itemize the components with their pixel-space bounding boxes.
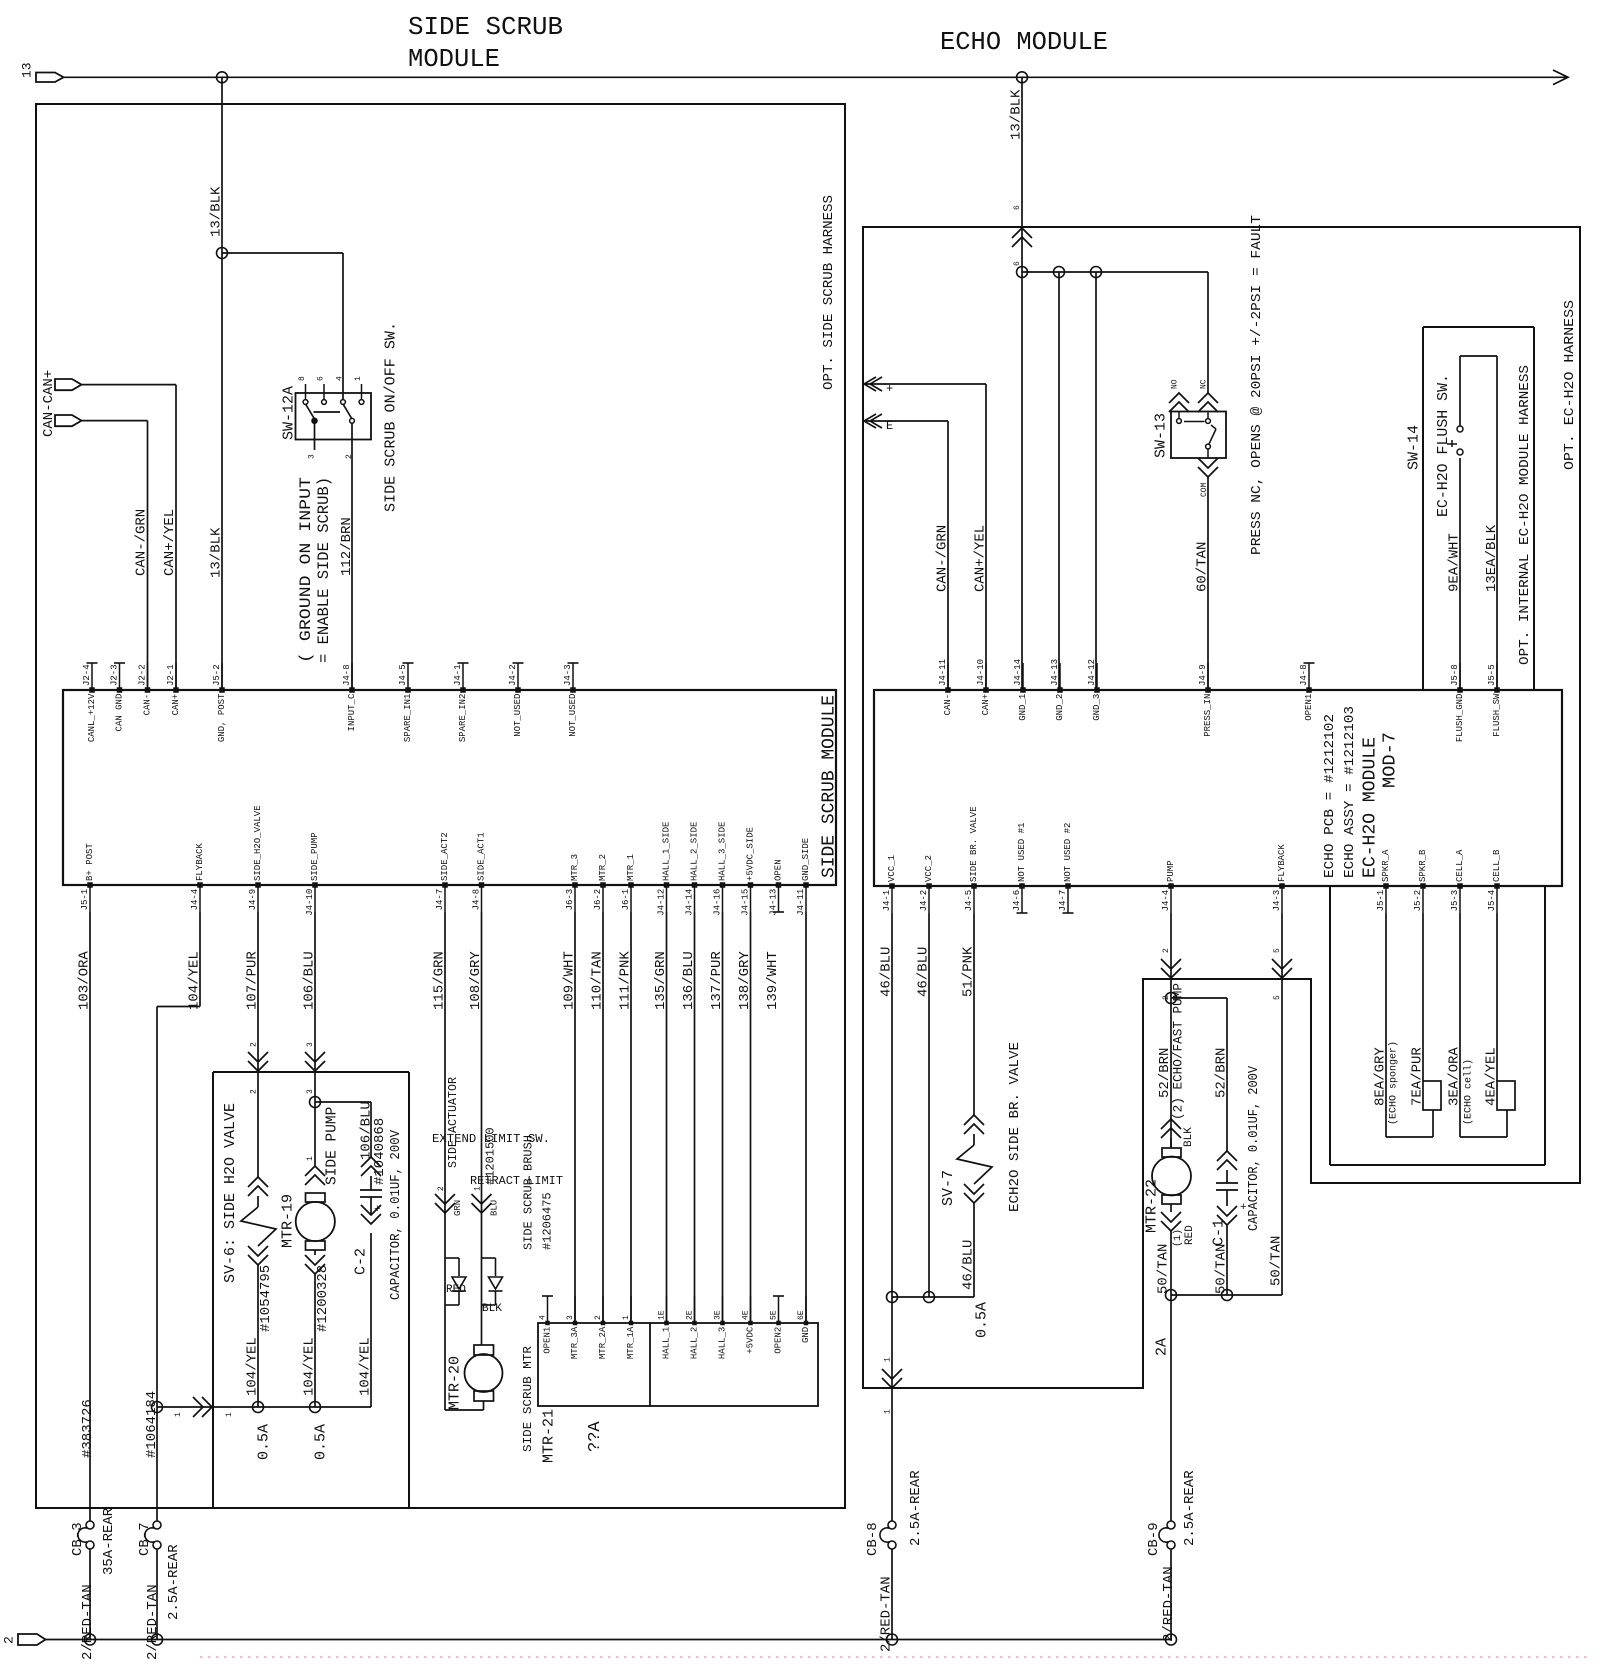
svg-text:SIDE SCRUB ON/OFF SW.: SIDE SCRUB ON/OFF SW. bbox=[382, 322, 399, 512]
junction C-1 tap bbox=[1166, 993, 1177, 1004]
svg-text:3: 3 bbox=[306, 1042, 315, 1047]
svg-text:J4-2: J4-2 bbox=[919, 890, 929, 912]
svg-text:SIDE_ACT1: SIDE_ACT1 bbox=[477, 832, 487, 881]
label #1040868 bbox=[372, 1118, 388, 1185]
label 60/TAN bbox=[1195, 542, 1211, 592]
wire branch to SW-12A bbox=[222, 253, 343, 400]
svg-text:2.5A-REAR: 2.5A-REAR bbox=[908, 1470, 924, 1546]
pin J4-16 HALL_3_SIDE bbox=[713, 822, 728, 916]
svg-text:139/WHT: 139/WHT bbox=[765, 951, 781, 1010]
wire GND_2 bbox=[1058, 272, 1060, 690]
junction pump bus bbox=[1166, 1290, 1177, 1301]
svg-text:J4-9: J4-9 bbox=[1198, 664, 1208, 686]
svg-text:+: + bbox=[374, 1204, 381, 1216]
svg-text:HALL_2: HALL_2 bbox=[690, 1327, 700, 1359]
svg-text:J4-5: J4-5 bbox=[964, 890, 974, 912]
svg-text:J2-1: J2-1 bbox=[166, 664, 176, 686]
junction 104/YEL bus bbox=[152, 1402, 163, 1413]
svg-text:J5-3: J5-3 bbox=[1450, 890, 1460, 912]
label 50/TAN mtr22 bbox=[1156, 1244, 1172, 1294]
pin J6-1 MTR_1 bbox=[621, 854, 636, 912]
label ECHO/FAST PUMP bbox=[1171, 983, 1186, 1120]
svg-text:CAN+/YEL: CAN+/YEL bbox=[973, 525, 989, 592]
svg-text:J4-14: J4-14 bbox=[1013, 659, 1023, 686]
svg-text:104/YEL: 104/YEL bbox=[302, 1337, 318, 1396]
wire 13/BLK right bbox=[1021, 77, 1023, 272]
svg-text:GND: GND bbox=[801, 1327, 811, 1343]
svg-text:GND_2: GND_2 bbox=[1055, 694, 1065, 721]
switch SW-12A box bbox=[296, 393, 372, 440]
svg-text:SIDE SCRUB: SIDE SCRUB bbox=[408, 12, 563, 42]
label 104/YEL c2 bbox=[358, 1337, 374, 1396]
wire CB-8 to bus bbox=[891, 1549, 893, 1640]
label 106/BLU bbox=[302, 951, 318, 1010]
svg-text:J5-1: J5-1 bbox=[1376, 890, 1386, 912]
switch SW-13 box bbox=[1171, 412, 1226, 459]
svg-text:6: 6 bbox=[316, 376, 325, 381]
pin J4-1 SPARE_IN2 bbox=[453, 663, 468, 742]
label 103/ORA bbox=[77, 951, 93, 1010]
svg-text:J4-10: J4-10 bbox=[305, 889, 315, 916]
svg-text:ECH2O SIDE BR. VALVE: ECH2O SIDE BR. VALVE bbox=[1007, 1042, 1023, 1212]
svg-text:CAN-: CAN- bbox=[143, 694, 153, 716]
svg-text:SPKR_B: SPKR_B bbox=[1418, 849, 1428, 882]
pin J4-10 SIDE_PUMP bbox=[305, 832, 320, 915]
label NO bbox=[1170, 379, 1179, 389]
svg-text:50/TAN: 50/TAN bbox=[1156, 1244, 1172, 1294]
pin J5-1 B+ POST bbox=[80, 843, 95, 912]
label pin2 sv6 above bbox=[249, 1042, 258, 1047]
label 0.5A sv6 bbox=[255, 1424, 272, 1460]
wire 60/TAN bbox=[1207, 477, 1209, 690]
label #1201500 bbox=[483, 1127, 497, 1185]
label 2 pump below bbox=[1162, 995, 1171, 1000]
wire 13/BLK left bbox=[221, 77, 223, 690]
pin 1E HALL_1 MTR-21 bbox=[657, 1296, 671, 1359]
svg-text:5: 5 bbox=[1273, 948, 1282, 953]
svg-text:SV-6: SIDE H2O VALVE: SV-6: SIDE H2O VALVE bbox=[222, 1103, 239, 1283]
wire 107/PUR bbox=[257, 912, 259, 1177]
pin J4-4 FLYBACK bbox=[190, 843, 205, 912]
svg-text:SW-12A: SW-12A bbox=[280, 386, 297, 440]
label #1064184 bbox=[144, 1391, 160, 1458]
pin 1 label bbox=[354, 376, 363, 381]
title MODULE bbox=[408, 44, 500, 74]
circuit breaker CB-8 bbox=[880, 1521, 896, 1549]
label 13EA/BLK bbox=[1484, 524, 1500, 592]
wire CB-7 to bus bbox=[156, 1549, 158, 1640]
label 115/GRN bbox=[432, 951, 448, 1010]
wire GND_1 bbox=[1021, 272, 1023, 690]
pin J5-2 SPKR_B bbox=[1413, 849, 1428, 913]
svg-text:#1206475: #1206475 bbox=[540, 1192, 554, 1250]
svg-text:MTR_3A: MTR_3A bbox=[570, 1326, 580, 1359]
label 2/RED-TAN bbox=[1161, 1566, 1177, 1642]
svg-text:2: 2 bbox=[2, 1636, 17, 1644]
wire vcc header bbox=[892, 1296, 974, 1298]
svg-text:8EA/GRY: 8EA/GRY bbox=[1373, 1047, 1389, 1106]
svg-text:CANL_+12V: CANL_+12V bbox=[87, 693, 97, 742]
svg-text:INPUT_C: INPUT_C bbox=[347, 693, 357, 731]
svg-text:CAN+: CAN+ bbox=[171, 694, 181, 716]
wire 52/BRN pump bbox=[1170, 913, 1172, 1148]
label 136/BLU bbox=[681, 951, 697, 1010]
svg-text:J5-2: J5-2 bbox=[212, 664, 222, 686]
junction CB-9 bus bbox=[1166, 1634, 1177, 1645]
label CAN+/YEL right bbox=[973, 525, 989, 592]
pin J4-12 GND_3 bbox=[1087, 659, 1102, 721]
svg-text:13/BLK: 13/BLK bbox=[209, 186, 225, 237]
label CB-3 bbox=[70, 1522, 86, 1556]
label C-1 plus bbox=[1240, 1202, 1247, 1214]
wire 103/ORA bbox=[89, 912, 91, 1521]
label 108/GRY bbox=[468, 951, 484, 1010]
label RED bbox=[446, 1284, 466, 1296]
svg-text:J4-12: J4-12 bbox=[1087, 659, 1097, 686]
svg-text:MTR-22: MTR-22 bbox=[1143, 1179, 1160, 1233]
wire 112/BRN bbox=[351, 423, 353, 690]
label 8EA/GRY bbox=[1373, 1047, 1389, 1106]
label GRN bbox=[453, 1200, 463, 1216]
svg-text:SIDE_H2O_VALVE: SIDE_H2O_VALVE bbox=[253, 805, 263, 881]
junction C-2 tap bbox=[310, 1097, 321, 1108]
svg-text:HALL_1: HALL_1 bbox=[662, 1327, 672, 1359]
module EC-H2O MODULE box bbox=[874, 690, 1562, 886]
pin J4-8 OPEN1 bbox=[1299, 663, 1314, 721]
wire GND_3 bbox=[1095, 272, 1097, 690]
svg-text:13EA/BLK: 13EA/BLK bbox=[1484, 524, 1500, 592]
pin J5-4 CELL_B bbox=[1487, 849, 1502, 913]
label #1206475 bbox=[540, 1192, 554, 1250]
pin 6 label bbox=[316, 376, 325, 381]
circuit breaker CB-9 bbox=[1159, 1521, 1175, 1549]
svg-text:2/RED-TAN: 2/RED-TAN bbox=[1161, 1566, 1177, 1642]
wire CB-3 to bus bbox=[89, 1549, 91, 1640]
label 110/TAN bbox=[590, 951, 606, 1010]
svg-text:MTR_3: MTR_3 bbox=[570, 854, 580, 881]
svg-text:2/RED-TAN: 2/RED-TAN bbox=[80, 1584, 96, 1660]
svg-text:SPARE_IN2: SPARE_IN2 bbox=[458, 694, 468, 743]
label MTR-20 bbox=[446, 1356, 463, 1410]
svg-text:PRESS NC, OPENS @ 20PSI +/-2PS: PRESS NC, OPENS @ 20PSI +/-2PSI = FAULT bbox=[1249, 215, 1265, 555]
wire to MTR-21 x575 bbox=[574, 912, 576, 1323]
svg-text:HALL_2_SIDE: HALL_2_SIDE bbox=[690, 822, 700, 881]
svg-text:3: 3 bbox=[306, 1089, 315, 1094]
label pin1 act bbox=[473, 1186, 482, 1191]
label (1) bbox=[1172, 1229, 1184, 1247]
svg-text:CB-7: CB-7 bbox=[137, 1522, 153, 1556]
svg-text:OPT. EC-H2O HARNESS: OPT. EC-H2O HARNESS bbox=[1562, 300, 1578, 470]
switch SW-13 contacts bbox=[1177, 412, 1216, 459]
label pin3 mtr19 below bbox=[306, 1089, 315, 1094]
svg-text:VCC_1: VCC_1 bbox=[887, 855, 897, 882]
pin J4-9 PRESS_IN bbox=[1198, 663, 1213, 737]
svg-text:MTR_2A: MTR_2A bbox=[598, 1326, 608, 1359]
label 46/BLU vcc1 bbox=[879, 947, 895, 997]
wire 46/BLU vcc2 bbox=[928, 913, 930, 1297]
label 104/YEL bbox=[187, 951, 203, 1010]
switch SW-12A terminals bbox=[303, 384, 364, 404]
label C-2 plus bbox=[374, 1204, 381, 1216]
svg-text:J2-3: J2-3 bbox=[110, 664, 120, 686]
svg-text:0.5A: 0.5A bbox=[973, 1302, 990, 1338]
svg-text:1: 1 bbox=[225, 1412, 234, 1417]
switch SW-12A link bbox=[314, 411, 341, 413]
label pin3 mtr19 above bbox=[306, 1042, 315, 1047]
svg-text:J4-12: J4-12 bbox=[657, 889, 667, 916]
note enable side scrub bbox=[315, 477, 333, 663]
svg-text:46/BLU: 46/BLU bbox=[961, 1240, 977, 1290]
label SIDE PUMP bbox=[325, 1107, 341, 1185]
label #383726 bbox=[80, 1399, 96, 1458]
wire 115/GRN bbox=[445, 912, 484, 1410]
net 13 connector flag bbox=[20, 62, 64, 82]
label CAN-/GRN bbox=[134, 509, 150, 576]
junction CB-7 bus bbox=[152, 1634, 163, 1645]
svg-text:ECHO ASSY = #1212103: ECHO ASSY = #1212103 bbox=[1342, 706, 1358, 878]
chevron SW-13 NC bbox=[1198, 393, 1218, 412]
svg-text:J5-5: J5-5 bbox=[1487, 664, 1497, 686]
svg-text:J5-4: J5-4 bbox=[1487, 890, 1497, 912]
diode D-BLK loop bbox=[482, 1258, 503, 1305]
svg-text:OPT. INTERNAL EC-H2O MODULE HA: OPT. INTERNAL EC-H2O MODULE HARNESS bbox=[1517, 365, 1533, 665]
wire 9EA/WHT bbox=[1459, 458, 1461, 690]
svg-text:J4-3: J4-3 bbox=[1272, 890, 1282, 912]
svg-text:9EA/WHT: 9EA/WHT bbox=[1447, 533, 1463, 592]
chevron 13/BLK boundary bbox=[1012, 228, 1032, 247]
label 13/BLK upper bbox=[209, 186, 225, 237]
junction net13/13BLK left bbox=[217, 72, 228, 83]
svg-text:5E: 5E bbox=[769, 1310, 778, 1320]
svg-text:CAN GND: CAN GND bbox=[115, 694, 125, 732]
label C-1 bbox=[1210, 1219, 1227, 1246]
svg-text:BLK: BLK bbox=[482, 1303, 502, 1315]
label 0.5A mtr19 bbox=[312, 1424, 329, 1460]
svg-text:MTR-20: MTR-20 bbox=[446, 1356, 463, 1410]
box valve-pump assembly bbox=[213, 1072, 409, 1508]
pin J2-2 CAN- bbox=[138, 663, 153, 715]
label 52/BRN b bbox=[1214, 1048, 1230, 1098]
label ECHO PCB bbox=[1322, 714, 1338, 878]
load ECHO sponger bbox=[1423, 1081, 1441, 1137]
svg-text:MTR_2: MTR_2 bbox=[598, 854, 608, 881]
label ECHO cell bbox=[1463, 1059, 1475, 1125]
wire gnd header bbox=[1022, 271, 1208, 273]
svg-text:SW-14: SW-14 bbox=[1405, 425, 1422, 470]
pin J4-12 HALL_1_SIDE bbox=[657, 822, 672, 916]
wire CAN-/GRN bbox=[82, 421, 148, 690]
svg-text:MTR_1: MTR_1 bbox=[626, 854, 636, 881]
pin J4-6 NOT USED #1 bbox=[1012, 823, 1027, 913]
label SV-7 bbox=[940, 1170, 957, 1206]
chevron flyback boundary bbox=[1272, 959, 1292, 978]
wire CAN+/YEL bbox=[82, 385, 177, 690]
wire NC feed bbox=[1207, 272, 1209, 393]
junction sv6 bus bbox=[253, 1402, 264, 1413]
wire 8EA/GRY bbox=[1386, 913, 1433, 1137]
svg-text:J4-16: J4-16 bbox=[713, 889, 723, 916]
svg-text:2: 2 bbox=[437, 1186, 446, 1191]
svg-text:CAPACITOR, 0.01UF, 200V: CAPACITOR, 0.01UF, 200V bbox=[388, 1129, 404, 1300]
wire 108/GRY bbox=[481, 912, 483, 1345]
svg-text:46/BLU: 46/BLU bbox=[879, 947, 895, 997]
svg-text:SIDE ACTUATOR: SIDE ACTUATOR bbox=[446, 1077, 460, 1168]
svg-text:J4-10: J4-10 bbox=[976, 659, 986, 686]
label CAPACITOR C-1 bbox=[1246, 1065, 1262, 1231]
chevron 106/BLU box bbox=[305, 1052, 325, 1071]
svg-text:J4-13: J4-13 bbox=[1050, 659, 1060, 686]
label 2/RED-TAN bbox=[145, 1584, 161, 1660]
label BLK mtr22 bbox=[1183, 1127, 1195, 1147]
capacitor C-1 bbox=[1216, 1151, 1238, 1295]
wire CB-9 drop bbox=[1170, 1295, 1172, 1521]
wire 106/BLU bbox=[314, 912, 316, 1166]
pin J4-9 SIDE_H2O_VALVE bbox=[248, 805, 263, 912]
net 2 connector flag bbox=[2, 1634, 46, 1645]
pin J2-1 CAN+ bbox=[166, 663, 181, 715]
svg-text:MTR-19: MTR-19 bbox=[279, 1194, 296, 1248]
label SW-13 bbox=[1152, 413, 1169, 458]
svg-text:HALL_3_SIDE: HALL_3_SIDE bbox=[718, 822, 728, 881]
svg-text:J5-8: J5-8 bbox=[1450, 664, 1460, 686]
label 111/PNK bbox=[618, 951, 634, 1010]
svg-text:GND, POST: GND, POST bbox=[217, 693, 227, 742]
svg-text:4E: 4E bbox=[741, 1310, 750, 1320]
load ECHO cell bbox=[1497, 1081, 1515, 1137]
pin J5-2 GND, POST bbox=[212, 663, 227, 742]
svg-text:+5VDC_SIDE: +5VDC_SIDE bbox=[746, 827, 756, 881]
label 1 above bbox=[883, 1357, 892, 1362]
svg-text:2A: 2A bbox=[1153, 1338, 1170, 1356]
label 5 above bbox=[1273, 948, 1282, 953]
svg-text:1: 1 bbox=[354, 376, 363, 381]
label 1 below bbox=[883, 1409, 892, 1414]
svg-text:VCC_2: VCC_2 bbox=[924, 855, 934, 882]
wire CB-7 drop bbox=[156, 1407, 158, 1521]
label 2.5A-REAR bbox=[908, 1470, 924, 1546]
svg-text:#1200328: #1200328 bbox=[315, 1265, 331, 1332]
pin J4-5 SIDE BR. VALVE bbox=[964, 806, 979, 913]
pin J4-7 SIDE_ACT2 bbox=[435, 832, 450, 912]
svg-text:J5-2: J5-2 bbox=[1413, 890, 1423, 912]
svg-text:#1064184: #1064184 bbox=[144, 1391, 160, 1458]
pin 4 label bbox=[335, 376, 344, 381]
svg-text:+5VDC: +5VDC bbox=[746, 1326, 756, 1354]
svg-text:J4-15: J4-15 bbox=[741, 889, 751, 916]
svg-text:3EA/ORA: 3EA/ORA bbox=[1447, 1047, 1463, 1106]
pin J4-11 GND_SIDE bbox=[796, 838, 811, 916]
label 2.5A-REAR bbox=[1182, 1470, 1198, 1546]
svg-text:CELL_A: CELL_A bbox=[1455, 849, 1465, 882]
pin J4-4 PUMP bbox=[1161, 860, 1176, 913]
svg-text:J6-2: J6-2 bbox=[593, 889, 603, 911]
svg-text:13/BLK: 13/BLK bbox=[209, 527, 225, 578]
svg-text:NOT USED #1: NOT USED #1 bbox=[1017, 823, 1027, 882]
svg-text:4: 4 bbox=[335, 376, 344, 381]
motor MTR-20 bbox=[465, 1345, 503, 1410]
svg-text:GND_3: GND_3 bbox=[1092, 694, 1102, 721]
wire net 2 bus bbox=[46, 1639, 1172, 1641]
svg-text:J4-6: J4-6 bbox=[1012, 890, 1022, 912]
junction c1 bus bbox=[1222, 1290, 1233, 1301]
wire 104/YEL feed line bbox=[157, 1406, 371, 1408]
svg-text:HALL_3: HALL_3 bbox=[718, 1327, 728, 1359]
chevron SW-13 COM bbox=[1198, 458, 1218, 477]
label pin2 sv6 below bbox=[249, 1089, 258, 1094]
label CB-9 bbox=[1146, 1522, 1162, 1556]
svg-text:SIDE_PUMP: SIDE_PUMP bbox=[310, 832, 320, 881]
svg-text:CAN+/YEL: CAN+/YEL bbox=[162, 509, 178, 576]
svg-text:EC-H2O FLUSH SW.: EC-H2O FLUSH SW. bbox=[1436, 374, 1452, 517]
svg-text:J5-1: J5-1 bbox=[80, 889, 90, 911]
label 5 below bbox=[1273, 995, 1282, 1000]
motor MTR-19 bbox=[296, 1166, 335, 1407]
label plus bbox=[886, 382, 893, 396]
svg-text:CAPACITOR, 0.01UF, 200V: CAPACITOR, 0.01UF, 200V bbox=[1246, 1065, 1262, 1231]
svg-text:1: 1 bbox=[883, 1409, 892, 1414]
arrow CAN+ bbox=[864, 377, 882, 391]
svg-text:46/BLU: 46/BLU bbox=[916, 947, 932, 997]
junction gnd a bbox=[1017, 267, 1028, 278]
label EC-H2O MODULE bbox=[1360, 737, 1380, 878]
label 51/PNK bbox=[961, 946, 977, 997]
box internal echo harness bbox=[1423, 327, 1534, 690]
label MTR-19 bbox=[279, 1194, 296, 1248]
wire 13EA/BLK bbox=[1460, 356, 1497, 690]
junction net13/13BLK right bbox=[1017, 72, 1028, 83]
label 1 feed a bbox=[174, 1412, 183, 1417]
label 106/BLU c2 bbox=[359, 1101, 375, 1160]
svg-text:EC-H2O MODULE: EC-H2O MODULE bbox=[1360, 737, 1380, 878]
svg-text:2: 2 bbox=[1162, 948, 1171, 953]
pin J4-8 INPUT_C bbox=[342, 663, 357, 731]
label OPT. SIDE SCRUB HARNESS bbox=[821, 195, 837, 390]
svg-text:J4-11: J4-11 bbox=[796, 889, 806, 916]
label COM bbox=[1200, 482, 1209, 497]
svg-text:E: E bbox=[886, 419, 893, 433]
label MOD-7 bbox=[1380, 732, 1400, 788]
svg-text:1E: 1E bbox=[657, 1310, 666, 1320]
svg-text:HALL_1_SIDE: HALL_1_SIDE bbox=[662, 822, 672, 881]
motor MTR-22 bbox=[1152, 1119, 1191, 1295]
svg-text:60/TAN: 60/TAN bbox=[1195, 542, 1211, 592]
pin 1 MTR_1A MTR-21 bbox=[622, 1296, 636, 1359]
svg-text:J4-8: J4-8 bbox=[342, 664, 352, 686]
label 104/YEL sv6 bbox=[245, 1337, 261, 1396]
svg-text:( GROUND ON INPUT: ( GROUND ON INPUT bbox=[297, 477, 315, 663]
label pin1 mtr19 bbox=[306, 1156, 315, 1161]
connector CAN- flag bbox=[55, 415, 82, 426]
circuit breaker CB-3 bbox=[78, 1521, 94, 1549]
pin J5-3 CELL_A bbox=[1450, 849, 1465, 913]
wire 7EA/PUR bbox=[1422, 913, 1424, 1081]
boundary OPT. EC-H2O HARNESS bbox=[863, 227, 1580, 1388]
label EXTEND LIMIT SW. bbox=[432, 1132, 550, 1146]
svg-text:SIDE PUMP: SIDE PUMP bbox=[325, 1107, 341, 1185]
label 135/GRN bbox=[653, 951, 669, 1010]
pin 2E HALL_2 MTR-21 bbox=[685, 1296, 699, 1359]
pin J2-3 CAN GND bbox=[110, 663, 125, 731]
svg-text:CAN-/GRN: CAN-/GRN bbox=[935, 525, 951, 592]
title SIDE SCRUB bbox=[408, 12, 563, 42]
svg-text:J6-3: J6-3 bbox=[565, 889, 575, 911]
capacitor C-2 bbox=[360, 1157, 382, 1407]
svg-text:J4-8: J4-8 bbox=[472, 889, 482, 911]
svg-text:FLUSH_SW: FLUSH_SW bbox=[1492, 693, 1502, 737]
label 46/BLU sv7 bbox=[961, 1240, 977, 1290]
svg-text:ECHO MODULE: ECHO MODULE bbox=[940, 27, 1108, 57]
module SIDE SCRUB MODULE box bbox=[63, 690, 836, 885]
